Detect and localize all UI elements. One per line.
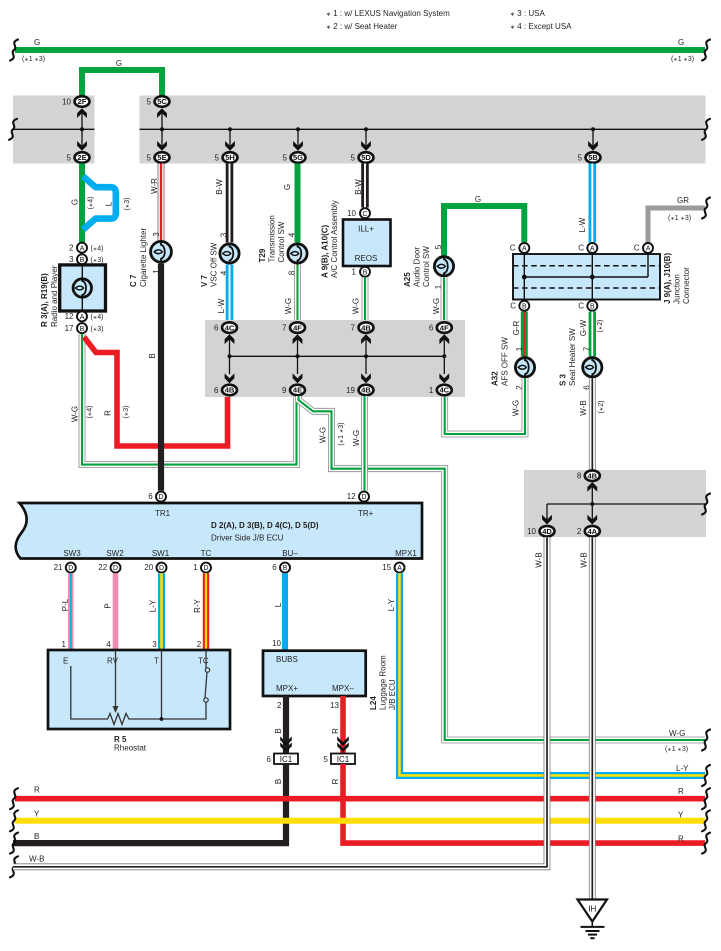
svg-text:V 7: V 7 xyxy=(200,274,209,287)
connector 5G xyxy=(283,152,306,163)
connector 4C bottom xyxy=(429,385,452,396)
band1 junction at x=230 xyxy=(228,127,232,131)
harness band 1 right segment xyxy=(140,96,706,164)
svg-text:G: G xyxy=(283,184,292,190)
svg-text:(∗1 ∗3): (∗1 ∗3) xyxy=(22,56,45,63)
connector 4E bottom xyxy=(282,385,305,396)
svg-text:P-L: P-L xyxy=(61,598,70,611)
svg-text:R: R xyxy=(331,728,340,734)
wire B IC1 to bottom bus xyxy=(13,764,286,843)
svg-text:D: D xyxy=(362,494,367,501)
svg-text:BU–: BU– xyxy=(282,549,298,558)
component S3 Seat Heater SW lamp xyxy=(583,356,602,378)
svg-text:3: 3 xyxy=(152,232,161,237)
svg-text:D: D xyxy=(68,565,73,572)
junction connector internal drop A-B middle xyxy=(591,248,593,306)
svg-text:A: A xyxy=(397,565,402,572)
svg-text:C: C xyxy=(363,211,368,218)
terminal B pin 17 of radio xyxy=(77,323,87,333)
svg-text:L-Y: L-Y xyxy=(149,599,158,612)
svg-text:C: C xyxy=(578,301,584,310)
svg-text:2F: 2F xyxy=(78,97,87,106)
terminal A right of junction connector xyxy=(643,243,653,253)
svg-text:W-G: W-G xyxy=(512,400,521,416)
wire B-W from 5H to VSC off SW xyxy=(226,164,234,243)
svg-text:12: 12 xyxy=(65,312,74,321)
svg-text:∗ 2 : w/ Seat Heater: ∗ 2 : w/ Seat Heater xyxy=(326,22,398,31)
svg-text:6: 6 xyxy=(214,386,219,395)
svg-text:12: 12 xyxy=(347,492,356,501)
svg-text:IC1: IC1 xyxy=(280,755,293,764)
svg-text:8: 8 xyxy=(577,472,582,481)
svg-text:3: 3 xyxy=(220,232,229,237)
svg-text:IC1: IC1 xyxy=(337,755,350,764)
svg-text:19: 19 xyxy=(346,386,355,395)
junction dot left xyxy=(522,275,527,280)
terminal D pin 20 SW1 xyxy=(157,563,167,573)
junction connector dashed line lower xyxy=(513,287,660,289)
band3 stem 4A xyxy=(591,504,593,521)
svg-text:G-W: G-W xyxy=(579,319,588,336)
break symbol right of G bus xyxy=(702,40,710,61)
svg-text:C: C xyxy=(634,244,640,253)
connector 4B bottom xyxy=(214,385,237,396)
svg-text:D: D xyxy=(113,565,118,572)
connector 5B xyxy=(578,152,601,163)
svg-text:B: B xyxy=(274,779,283,784)
terminal D pin 22 SW2 xyxy=(111,563,121,573)
svg-text:(∗3): (∗3) xyxy=(91,326,104,333)
svg-text:5E: 5E xyxy=(157,153,166,162)
wire L-Y MPX1 to right edge xyxy=(400,573,706,775)
svg-text:G: G xyxy=(34,38,40,47)
svg-text:5: 5 xyxy=(283,153,288,162)
connector 4C top xyxy=(214,322,237,333)
svg-text:L-W: L-W xyxy=(578,217,587,232)
break Y left xyxy=(10,810,18,831)
svg-text:5H: 5H xyxy=(225,153,235,162)
svg-text:17: 17 xyxy=(65,324,74,333)
svg-text:5: 5 xyxy=(351,153,356,162)
svg-text:1: 1 xyxy=(352,268,357,277)
break symbol GR wire xyxy=(702,198,710,219)
svg-text:TR1: TR1 xyxy=(155,509,171,518)
wire W-G A25 to 4F xyxy=(441,277,448,321)
svg-text:7: 7 xyxy=(583,346,592,351)
svg-text:A25: A25 xyxy=(403,272,412,287)
svg-text:MPX1: MPX1 xyxy=(395,549,417,558)
svg-text:4C: 4C xyxy=(225,323,235,332)
svg-text:B: B xyxy=(522,303,527,310)
svg-text:A: A xyxy=(80,314,85,321)
svg-text:1: 1 xyxy=(193,563,198,572)
svg-text:G: G xyxy=(71,199,80,205)
svg-text:3: 3 xyxy=(69,255,74,264)
wire L-W VSC SW to 4C xyxy=(226,265,234,322)
junction dot middle xyxy=(590,275,595,280)
break R2 right xyxy=(702,833,710,854)
svg-text:6: 6 xyxy=(214,323,219,332)
svg-text:A: A xyxy=(590,246,595,253)
svg-text:21: 21 xyxy=(54,563,63,572)
svg-text:TC: TC xyxy=(201,549,212,558)
svg-text:W-G: W-G xyxy=(71,406,80,422)
break W-B left xyxy=(10,856,18,877)
svg-text:Seat Heater SW: Seat Heater SW xyxy=(568,328,577,386)
svg-text:MPX+: MPX+ xyxy=(276,684,298,693)
illumination lamp inside radio xyxy=(73,277,91,298)
svg-text:B-W: B-W xyxy=(215,179,224,195)
svg-text:E: E xyxy=(63,657,68,666)
svg-text:A 9(B), A10(C): A 9(B), A10(C) xyxy=(321,224,330,278)
svg-text:10: 10 xyxy=(272,639,281,648)
svg-text:5: 5 xyxy=(578,153,583,162)
svg-text:22: 22 xyxy=(98,563,107,572)
svg-text:5: 5 xyxy=(434,244,443,249)
svg-text:5G: 5G xyxy=(293,153,303,162)
wire W-G 4E diagonal branch (*1 *3) xyxy=(299,396,706,740)
svg-text:2: 2 xyxy=(197,640,202,649)
terminal D pin 6 TR1 xyxy=(156,492,166,502)
svg-text:Cigarette Lighter: Cigarette Lighter xyxy=(139,228,148,287)
component A25 Audio Door Control SW lamp xyxy=(434,255,453,277)
svg-text:P: P xyxy=(104,603,113,608)
svg-text:S 3: S 3 xyxy=(559,373,568,386)
svg-text:Junction: Junction xyxy=(673,274,682,304)
component D2-D5 Driver Side J/B ECU box xyxy=(16,503,422,559)
svg-text:6: 6 xyxy=(267,755,272,764)
svg-text:13: 13 xyxy=(330,701,339,710)
break symbol band3 right xyxy=(702,494,710,515)
connector 4B bottom 19 xyxy=(346,385,373,396)
svg-text:REOS: REOS xyxy=(355,254,378,263)
terminal B left of junction connector xyxy=(519,301,529,311)
harness band 2 xyxy=(205,320,465,397)
svg-text:B: B xyxy=(80,326,85,333)
svg-text:R: R xyxy=(331,778,340,784)
svg-text:Audio Door: Audio Door xyxy=(413,247,422,287)
svg-text:4F: 4F xyxy=(440,323,449,332)
svg-text:IH: IH xyxy=(588,905,596,914)
svg-text:10: 10 xyxy=(62,97,71,106)
connector IC1 for MPX- xyxy=(324,754,355,765)
terminal A middle of junction connector xyxy=(587,243,597,253)
connector 4B of band3 xyxy=(577,470,600,481)
break symbol band1 left xyxy=(9,119,17,140)
svg-text:T: T xyxy=(154,657,159,666)
component A9/A10 A/C Control Assembly box xyxy=(343,220,391,267)
svg-text:C: C xyxy=(510,301,516,310)
svg-text:Y: Y xyxy=(34,810,40,819)
svg-text:D: D xyxy=(159,565,164,572)
svg-text:4C: 4C xyxy=(440,386,450,395)
svg-text:G: G xyxy=(116,59,122,68)
band2 junction at x=297.5 xyxy=(296,354,300,358)
wire R radio to 4B (USA) xyxy=(84,337,228,446)
svg-text:R 3(A), R19(B): R 3(A), R19(B) xyxy=(40,273,49,327)
svg-text:4B: 4B xyxy=(361,323,371,332)
svg-text:W-G: W-G xyxy=(352,430,361,446)
band 1 inner line left xyxy=(13,128,95,130)
svg-text:B: B xyxy=(590,303,595,310)
svg-text:Transmission: Transmission xyxy=(268,215,277,262)
svg-text:10: 10 xyxy=(347,209,356,218)
svg-text:Y: Y xyxy=(678,811,684,820)
connector 5D xyxy=(351,152,374,163)
wire P-L SW3 to rheostat xyxy=(68,573,74,650)
band1 junction at x=298 xyxy=(296,127,300,131)
wire W-G A/C assembly to 4B xyxy=(362,277,369,321)
rheostat wiper arrow xyxy=(113,706,119,713)
band 2 inner line xyxy=(230,355,445,357)
svg-text:G: G xyxy=(678,38,684,47)
svg-text:GR: GR xyxy=(677,196,689,205)
svg-text:R: R xyxy=(678,835,684,844)
arrow up to 4B xyxy=(587,482,597,492)
band2 junction at x=229.5 xyxy=(228,354,232,358)
component T29 Transmission Control SW lamp xyxy=(288,243,307,265)
svg-text:4B: 4B xyxy=(588,471,598,480)
wire G from 5G to transmission control SW xyxy=(295,164,301,243)
arrow down to 4A xyxy=(587,515,597,525)
svg-text:G: G xyxy=(475,195,481,204)
terminal A pin 15 MPX1 xyxy=(395,563,405,573)
svg-text:7: 7 xyxy=(351,323,356,332)
svg-text:W-G: W-G xyxy=(319,427,328,443)
svg-text:W-G: W-G xyxy=(669,729,685,738)
svg-text:(∗1 ∗3): (∗1 ∗3) xyxy=(671,56,694,63)
component C7 cigarette lighter lamp xyxy=(151,240,172,264)
terminal B pin 3 of radio xyxy=(77,254,87,264)
wire B lighter to TR1 xyxy=(158,264,164,491)
svg-text:10: 10 xyxy=(527,527,536,536)
svg-text:(∗2): (∗2) xyxy=(597,320,604,333)
wire R-Y TC to rheostat xyxy=(203,573,209,650)
svg-text:∗ 4 : Except USA: ∗ 4 : Except USA xyxy=(510,22,572,31)
terminal D pin 1 TC xyxy=(201,563,211,573)
svg-text:Driver Side J/B ECU: Driver Side J/B ECU xyxy=(211,534,284,543)
svg-text:(∗1 ∗3): (∗1 ∗3) xyxy=(668,215,691,222)
connector 4B top xyxy=(351,322,374,333)
svg-text:4A: 4A xyxy=(588,527,598,536)
component R3/R19 Radio and Player xyxy=(60,265,106,311)
svg-text:W-G: W-G xyxy=(284,298,293,314)
svg-text:RV: RV xyxy=(107,657,119,666)
junction dot T lead xyxy=(160,717,164,721)
svg-text:(∗4): (∗4) xyxy=(91,314,104,321)
break B left xyxy=(10,833,18,854)
wire G illumination bus (top) xyxy=(15,47,705,53)
svg-text:TR+: TR+ xyxy=(358,509,374,518)
band1 junction at x=593 xyxy=(591,127,595,131)
svg-text:R: R xyxy=(678,787,684,796)
wire G-R junction connector B to AFS OFF SW xyxy=(521,312,528,357)
rheostat internal RV lead xyxy=(115,650,117,706)
svg-text:5: 5 xyxy=(67,153,72,162)
terminal A left of junction connector xyxy=(519,243,529,253)
junction connector internal drop A-B left xyxy=(523,248,525,306)
band 1 inner line right xyxy=(140,128,706,130)
rheostat internal E lead xyxy=(71,666,103,719)
component V7 VSC Off SW lamp xyxy=(220,243,239,265)
band1 junction at x=162 xyxy=(160,127,164,131)
svg-text:(∗1 ∗3): (∗1 ∗3) xyxy=(338,422,345,445)
connector 4D xyxy=(527,526,554,537)
svg-text:VSC Off SW: VSC Off SW xyxy=(210,242,219,287)
svg-text:C: C xyxy=(510,244,516,253)
wire W-R from 5E to cigarette lighter xyxy=(158,164,165,241)
svg-text:L-W: L-W xyxy=(217,298,226,313)
harness band 3 xyxy=(524,470,706,537)
junction connector internal drop right A xyxy=(647,248,649,277)
harness band 1 left segment xyxy=(13,96,95,164)
svg-text:5D: 5D xyxy=(361,153,371,162)
svg-text:4B: 4B xyxy=(225,386,235,395)
arrow into IC1 MPX- xyxy=(337,742,349,752)
wire W-G AFS OFF SW to 4C xyxy=(445,378,525,434)
svg-text:4F: 4F xyxy=(293,323,302,332)
wire G-W junction connector B to seat heater SW xyxy=(589,312,596,357)
arrow down to 4D xyxy=(542,515,552,525)
svg-text:L: L xyxy=(274,602,283,607)
wire G from bus to 2F and 5C jumper xyxy=(82,70,162,97)
break symbol L-Y right xyxy=(702,765,710,786)
wire L-Y SW1 to rheostat xyxy=(158,573,165,650)
connector 2F xyxy=(62,96,89,107)
svg-text:(∗1 ∗3): (∗1 ∗3) xyxy=(665,746,688,753)
break symbol W-G right xyxy=(702,730,710,751)
svg-text:(∗3): (∗3) xyxy=(124,198,131,211)
svg-text:2: 2 xyxy=(277,701,282,710)
svg-text:B: B xyxy=(283,565,288,572)
svg-text:∗ 1 : w/ LEXUS Navigation Syst: ∗ 1 : w/ LEXUS Navigation System xyxy=(326,9,450,18)
svg-text:4D: 4D xyxy=(542,527,552,536)
band1 junction at x=366 xyxy=(364,127,368,131)
wire G from 2E to radio xyxy=(79,164,85,243)
terminal B pin 1 of A/C assembly xyxy=(360,267,370,277)
component A32 AFS OFF SW lamp xyxy=(515,356,534,378)
band2 junction at x=444.3 xyxy=(442,354,446,358)
wire W-B 4D to bottom-left xyxy=(13,537,547,867)
wire Y bus bottom xyxy=(15,818,705,824)
wire W-B seat heater SW to 4B xyxy=(589,378,596,470)
svg-text:2E: 2E xyxy=(77,153,86,162)
terminal C pin 10 of A/C assembly xyxy=(360,208,370,218)
wire GR junction connector to right xyxy=(648,208,705,242)
svg-text:5C: 5C xyxy=(157,97,167,106)
wire L detour (USA) xyxy=(83,176,116,229)
connector 2E xyxy=(67,152,90,163)
svg-text:Control SW: Control SW xyxy=(422,246,431,287)
svg-text:9: 9 xyxy=(282,386,287,395)
break Y right xyxy=(702,810,710,831)
break R left xyxy=(10,788,18,809)
arrow into IC1 MPX+ xyxy=(280,742,292,752)
svg-text:A: A xyxy=(646,246,651,253)
svg-text:Control SW: Control SW xyxy=(277,221,286,262)
wire B MPX+ to IC1 xyxy=(283,696,289,753)
svg-text:SW2: SW2 xyxy=(106,549,124,558)
svg-text:B: B xyxy=(363,269,368,276)
junction dot band3 xyxy=(590,502,594,506)
svg-text:A: A xyxy=(522,246,527,253)
wire R bus bottom xyxy=(15,796,705,802)
break R right xyxy=(702,788,710,809)
svg-text:15: 15 xyxy=(382,563,391,572)
svg-text:Rheostat: Rheostat xyxy=(114,744,147,753)
svg-text:SW1: SW1 xyxy=(152,549,170,558)
wire L-W from 5B to junction connector xyxy=(588,164,596,243)
wire G junction connector A to audio door control SW xyxy=(444,206,524,256)
svg-text:7: 7 xyxy=(282,323,287,332)
svg-text:TC: TC xyxy=(198,657,209,666)
wire W-G 4B19 to TR+ xyxy=(361,396,368,491)
svg-text:B: B xyxy=(80,257,85,264)
svg-text:W-G: W-G xyxy=(352,298,361,314)
svg-text:W-B: W-B xyxy=(535,552,544,567)
svg-text:W-B: W-B xyxy=(29,855,44,864)
component J9/J10 junction connector box xyxy=(513,254,660,300)
svg-text:∗ 3 : USA: ∗ 3 : USA xyxy=(510,9,545,18)
svg-text:(∗4): (∗4) xyxy=(87,406,94,419)
svg-text:L-Y: L-Y xyxy=(387,598,396,611)
rheostat TC switch xyxy=(204,650,210,702)
wire B-W from 5D to A/C control assembly xyxy=(361,164,369,208)
svg-text:D: D xyxy=(204,565,209,572)
terminal B pin 6 BU- xyxy=(280,563,290,573)
junction connector internal bus line xyxy=(524,276,648,278)
terminal B middle of junction connector xyxy=(587,301,597,311)
svg-text:B: B xyxy=(274,728,283,733)
component R5 Rheostat box xyxy=(48,650,230,729)
wire R MPX- to IC1 xyxy=(340,696,346,753)
wire W-G radio to 4E xyxy=(82,334,297,465)
svg-text:(∗4): (∗4) xyxy=(91,245,104,252)
wire W-B 4A to ground xyxy=(589,537,596,900)
svg-text:(∗4): (∗4) xyxy=(88,197,95,210)
svg-text:B: B xyxy=(148,353,157,358)
svg-text:D: D xyxy=(159,494,164,501)
svg-text:2: 2 xyxy=(69,243,74,252)
ground IH xyxy=(578,900,608,939)
svg-text:R-Y: R-Y xyxy=(193,598,202,612)
rheostat resistor zigzag xyxy=(103,714,133,725)
svg-text:J/B ECU: J/B ECU xyxy=(388,679,397,710)
connector 5C xyxy=(147,96,170,107)
svg-text:A32: A32 xyxy=(491,371,500,386)
terminal A pin 2 of radio xyxy=(77,243,87,253)
rheostat internal bottom link to TC xyxy=(162,702,207,719)
svg-text:T29: T29 xyxy=(258,248,267,262)
svg-text:B: B xyxy=(34,832,39,841)
svg-text:3: 3 xyxy=(152,640,157,649)
wire P SW2 to rheostat xyxy=(113,573,119,650)
svg-text:B-W: B-W xyxy=(354,179,363,195)
svg-text:W-G: W-G xyxy=(432,298,441,314)
rheostat internal T lead xyxy=(133,650,162,719)
break symbol band1 right xyxy=(702,119,710,140)
svg-text:4: 4 xyxy=(106,640,111,649)
band3 stem 4B xyxy=(591,486,593,504)
svg-text:5: 5 xyxy=(147,153,152,162)
connector 4A xyxy=(577,526,600,537)
svg-text:6: 6 xyxy=(272,563,277,572)
svg-text:AFS OFF SW: AFS OFF SW xyxy=(501,337,510,386)
svg-text:4: 4 xyxy=(288,232,297,237)
svg-text:L: L xyxy=(105,201,114,206)
svg-text:(∗2): (∗2) xyxy=(598,401,605,414)
terminal D pin 21 SW3 xyxy=(66,563,76,573)
